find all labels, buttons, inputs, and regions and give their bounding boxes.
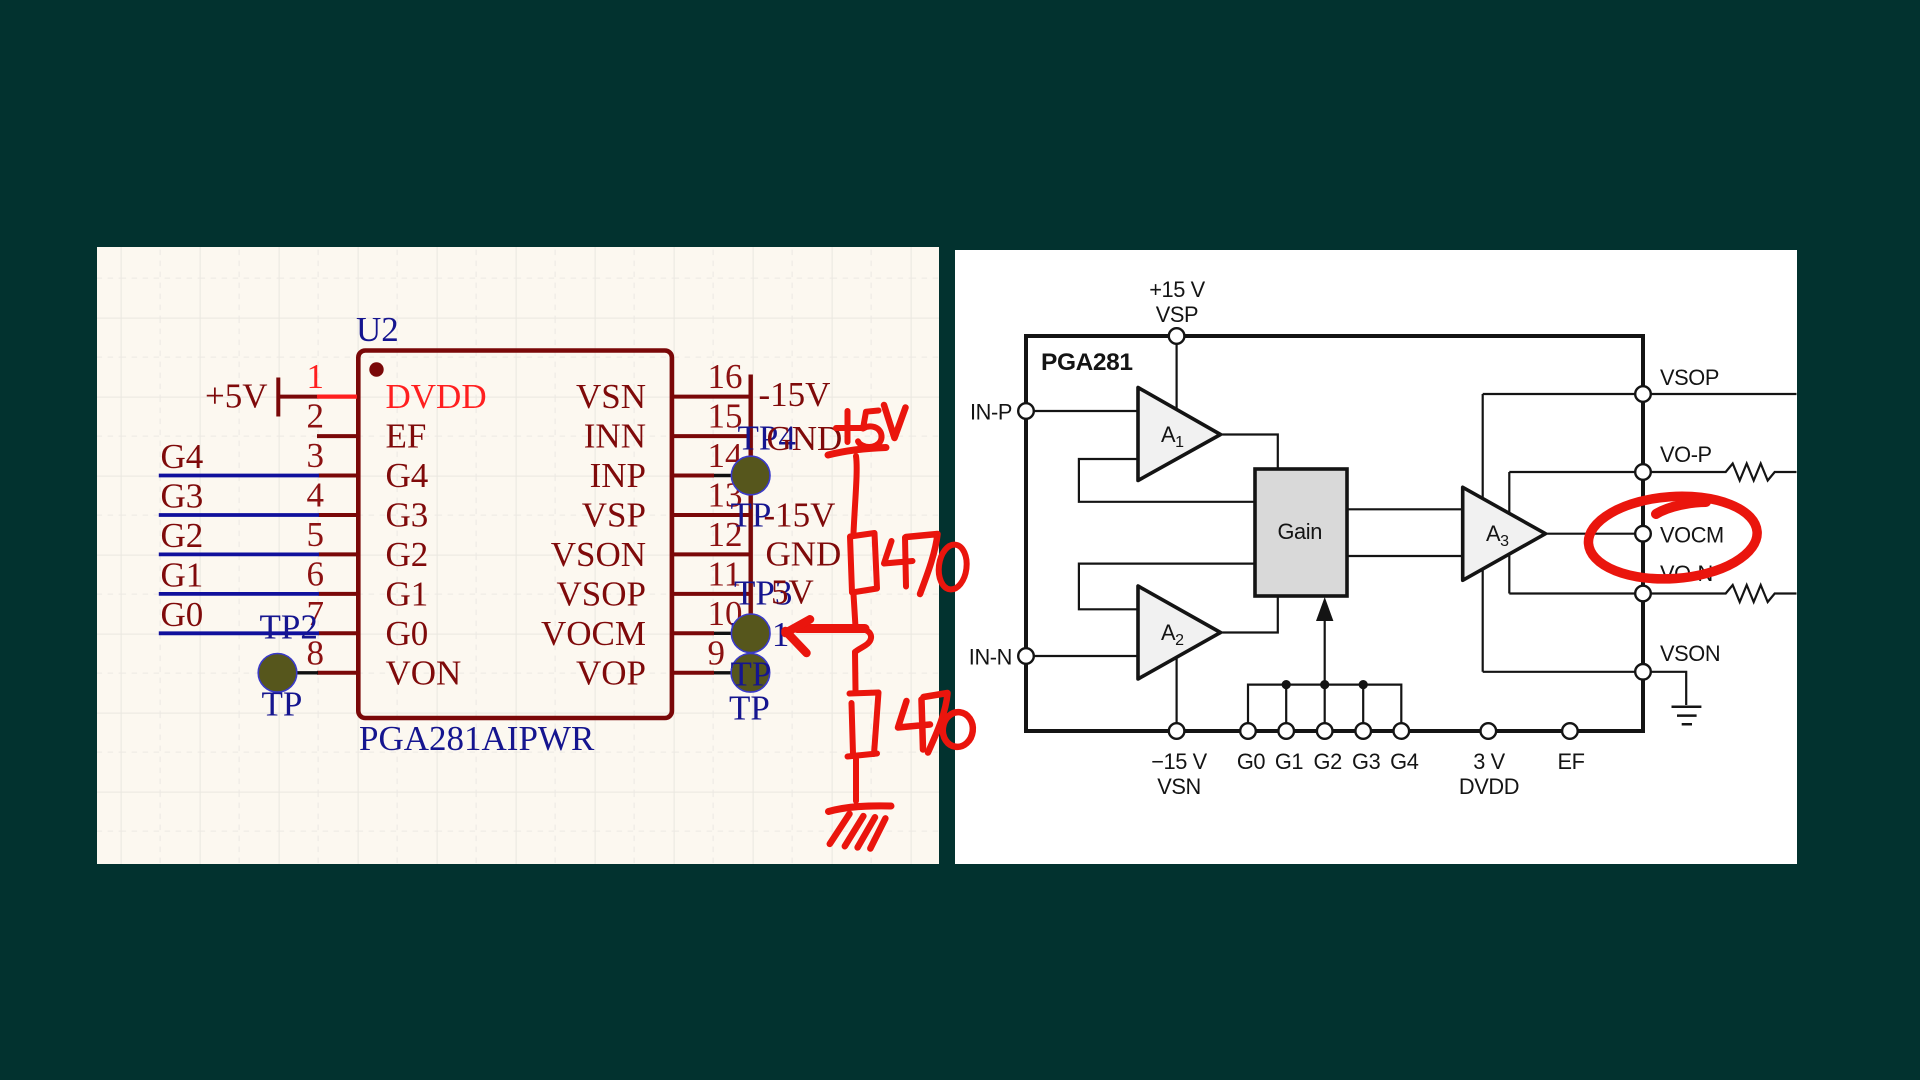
wire G3 xyxy=(159,513,319,517)
right datasheet panel xyxy=(955,250,1797,864)
pin names right column xyxy=(541,377,646,692)
wire A2 feedback to Gain xyxy=(1079,564,1255,610)
annotation wire to ground xyxy=(853,759,859,801)
annotation resistor R top 470 xyxy=(850,533,877,593)
pin names left column xyxy=(386,377,487,692)
terminal G4 xyxy=(1394,723,1410,739)
amplifier A1 xyxy=(1138,388,1221,481)
junction dot G1 xyxy=(1282,680,1291,689)
wire G2 xyxy=(159,553,319,557)
wire A3 output to VOCM xyxy=(1543,533,1636,535)
annotation wire down xyxy=(854,456,857,533)
pin 13 VSP stub xyxy=(672,513,752,517)
net label G4 xyxy=(161,437,204,634)
pin 7 G0 stub xyxy=(319,631,359,635)
amplifier A2 xyxy=(1138,586,1221,679)
pin 2 EF stub xyxy=(317,375,752,673)
terminal G0 xyxy=(1240,723,1256,739)
wire VSOP out xyxy=(1483,393,1797,395)
annotation +5V rail bar xyxy=(828,448,886,456)
test point pad pin10 TP1 xyxy=(714,632,751,635)
pin 5 G2 stub xyxy=(319,552,359,556)
pin 1 orientation dot xyxy=(369,362,383,376)
terminal EF xyxy=(1562,723,1578,739)
power bar right side xyxy=(749,375,753,655)
pin numbers left xyxy=(307,357,325,672)
wire A2 output to Gain xyxy=(1218,595,1278,633)
terminal G3 xyxy=(1355,723,1371,739)
wire G0 xyxy=(159,631,319,635)
wire VO-P/VO-N feedback loop xyxy=(1508,472,1510,594)
pin 9 VOP stub xyxy=(672,671,714,675)
pin 4 G3 stub xyxy=(319,513,359,517)
annotation squiggle at node xyxy=(851,628,871,652)
wire G4 xyxy=(159,476,319,634)
left schematic panel xyxy=(97,247,939,864)
annotation ground symbol xyxy=(829,806,892,812)
pin numbers right xyxy=(708,357,743,672)
pin 16 VSN stub xyxy=(672,395,752,399)
terminal VOCM xyxy=(1635,526,1651,542)
annotation wire mid xyxy=(854,594,856,627)
terminal VO-P xyxy=(1635,464,1651,480)
pin 8 VON stub xyxy=(317,671,358,675)
test point pad pin14 xyxy=(714,474,751,477)
junction dot G3 xyxy=(1359,680,1368,689)
wire A1 feedback to Gain xyxy=(1079,459,1255,502)
wire IN-P to A1 xyxy=(1028,410,1140,412)
annotation arrow to VOCM pin xyxy=(797,624,865,633)
pin 6 G1 stub xyxy=(319,592,359,596)
wire IN-N to A2 xyxy=(1028,655,1140,657)
pin 15 INN stub xyxy=(672,434,752,438)
annotation circle around VOCM xyxy=(1586,491,1760,585)
pin 14 INP stub xyxy=(672,474,714,478)
annotation +5V text xyxy=(836,411,861,442)
pin 3 G4 stub xyxy=(319,474,359,478)
terminal VO-N xyxy=(1635,586,1651,602)
power port +5V xyxy=(278,378,318,417)
terminal G2 xyxy=(1317,723,1333,739)
wire pin1 (highlighted net) xyxy=(317,395,357,399)
arrowhead into Gain xyxy=(1316,597,1333,621)
pin 10 VOCM stub xyxy=(672,631,714,635)
amplifier A3 xyxy=(1463,487,1546,580)
terminal IN-N xyxy=(1018,648,1034,664)
wire G1 xyxy=(159,592,319,596)
pin 12 VSON stub xyxy=(672,552,752,556)
annotation resistor R bottom 470 xyxy=(848,693,879,757)
wire A2 to VSN rail xyxy=(1175,645,1177,729)
terminal DVDD xyxy=(1481,723,1497,739)
terminal G1 xyxy=(1278,723,1294,739)
annotation 470 top value xyxy=(884,538,913,587)
wire VSON to ground xyxy=(1483,672,1687,705)
wire Gain to A3 upper xyxy=(1347,508,1464,510)
terminal VSOP xyxy=(1635,386,1651,402)
test point pad pin9 xyxy=(714,671,750,674)
terminal IN-P xyxy=(1018,403,1034,419)
wire Gain to A3 lower xyxy=(1347,555,1464,557)
terminal VSON xyxy=(1635,664,1651,680)
op-amp U2 chip body PGA281AIPWR xyxy=(358,351,672,719)
wire VSP supply to A1 xyxy=(1175,338,1177,428)
annotation 470 bottom value xyxy=(898,700,930,750)
wire VO-N out with resistor xyxy=(1509,585,1796,602)
pin 11 VSOP stub xyxy=(672,592,752,596)
test point pad pin8 xyxy=(278,671,319,674)
PGA281 outer boundary box xyxy=(1026,336,1643,731)
wire gain select arrow xyxy=(1324,614,1326,685)
wire VSOP vertical supply to A3 loop xyxy=(1482,394,1484,672)
junction dot G2 xyxy=(1320,680,1329,689)
ground symbol xyxy=(1672,707,1702,725)
wire VO-P out with resistor xyxy=(1509,464,1796,481)
gain select bus xyxy=(1248,685,1401,723)
terminal VSN xyxy=(1169,723,1185,739)
terminal VSP xyxy=(1169,328,1185,344)
wire A1 output to Gain xyxy=(1218,435,1278,471)
gain block xyxy=(1255,469,1347,596)
